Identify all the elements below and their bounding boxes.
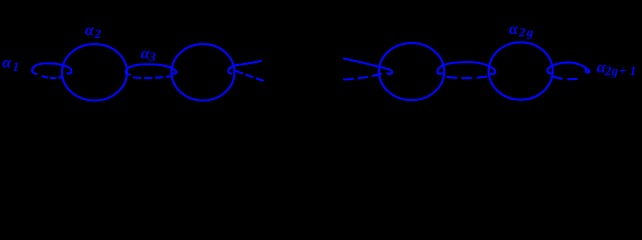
svg-text:1: 1 bbox=[630, 63, 637, 78]
svg-text:α: α bbox=[2, 55, 12, 72]
svg-text:2g: 2g bbox=[518, 24, 534, 39]
svg-text:2: 2 bbox=[94, 26, 102, 41]
svg-text:α: α bbox=[509, 21, 519, 38]
svg-text:1: 1 bbox=[13, 59, 20, 74]
svg-text:3: 3 bbox=[148, 49, 156, 64]
svg-text:2g: 2g bbox=[604, 63, 619, 78]
svg-text:+: + bbox=[619, 63, 626, 78]
svg-text:α: α bbox=[85, 22, 95, 39]
